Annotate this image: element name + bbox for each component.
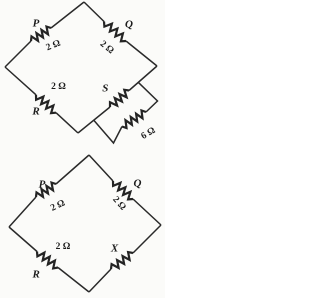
- svg-text:R: R: [32, 269, 40, 281]
- svg-text:P: P: [39, 179, 46, 191]
- svg-text:Q: Q: [125, 19, 133, 31]
- svg-text:2 Ω: 2 Ω: [51, 82, 66, 92]
- svg-text:R: R: [31, 106, 39, 118]
- svg-text:X: X: [110, 243, 119, 255]
- svg-text:2 Ω: 2 Ω: [56, 242, 71, 252]
- svg-text:Q: Q: [134, 178, 142, 190]
- svg-text:P: P: [33, 18, 40, 30]
- svg-text:S: S: [102, 83, 108, 95]
